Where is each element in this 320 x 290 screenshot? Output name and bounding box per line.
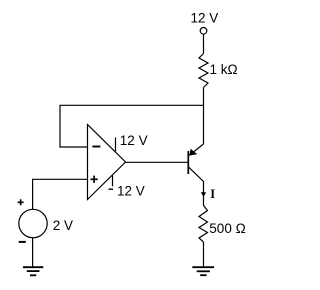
wire R1 to collector node — [203, 88, 205, 145]
source V1 minus marker — [19, 241, 26, 243]
svg-text:2 V: 2 V — [53, 218, 73, 233]
transistor Q1 collector lead — [188, 167, 203, 206]
transistor Q1 emitter lead — [189, 144, 203, 155]
transistor Q1 base bar — [187, 151, 189, 174]
ground right — [192, 267, 214, 275]
wire non-inverting input to source V1 — [33, 179, 88, 209]
svg-text:I: I — [210, 187, 215, 201]
current arrow I — [201, 192, 206, 197]
feedback wire node to inverting input — [60, 105, 204, 147]
source V1 plus marker — [18, 199, 24, 205]
svg-text:1 kΩ: 1 kΩ — [210, 62, 238, 77]
wire source V1 to ground — [32, 238, 34, 267]
label op-amp -12 V minus — [109, 188, 114, 190]
voltage source V1 — [19, 209, 47, 237]
op-amp inverting input marker — [92, 146, 100, 148]
svg-text:500 Ω: 500 Ω — [209, 221, 245, 236]
op-amp positive supply pin — [115, 138, 117, 152]
svg-text:12 V: 12 V — [117, 183, 145, 198]
resistor R2 — [199, 206, 208, 243]
wire supply terminal to R1 — [203, 34, 205, 53]
op-amp negative supply pin — [112, 175, 114, 186]
svg-text:12 V: 12 V — [120, 133, 148, 148]
ground left — [23, 267, 43, 275]
wire R2 to ground — [203, 242, 205, 267]
wire op-amp output to Q1 base — [126, 161, 189, 163]
op-amp non-inverting input marker — [91, 176, 98, 183]
terminal 12 V supply — [200, 28, 207, 35]
svg-text:12 V: 12 V — [191, 11, 219, 26]
resistor R1 — [199, 54, 208, 88]
transistor Q1 emitter arrow — [189, 149, 197, 156]
op-amp U1 — [88, 125, 126, 200]
